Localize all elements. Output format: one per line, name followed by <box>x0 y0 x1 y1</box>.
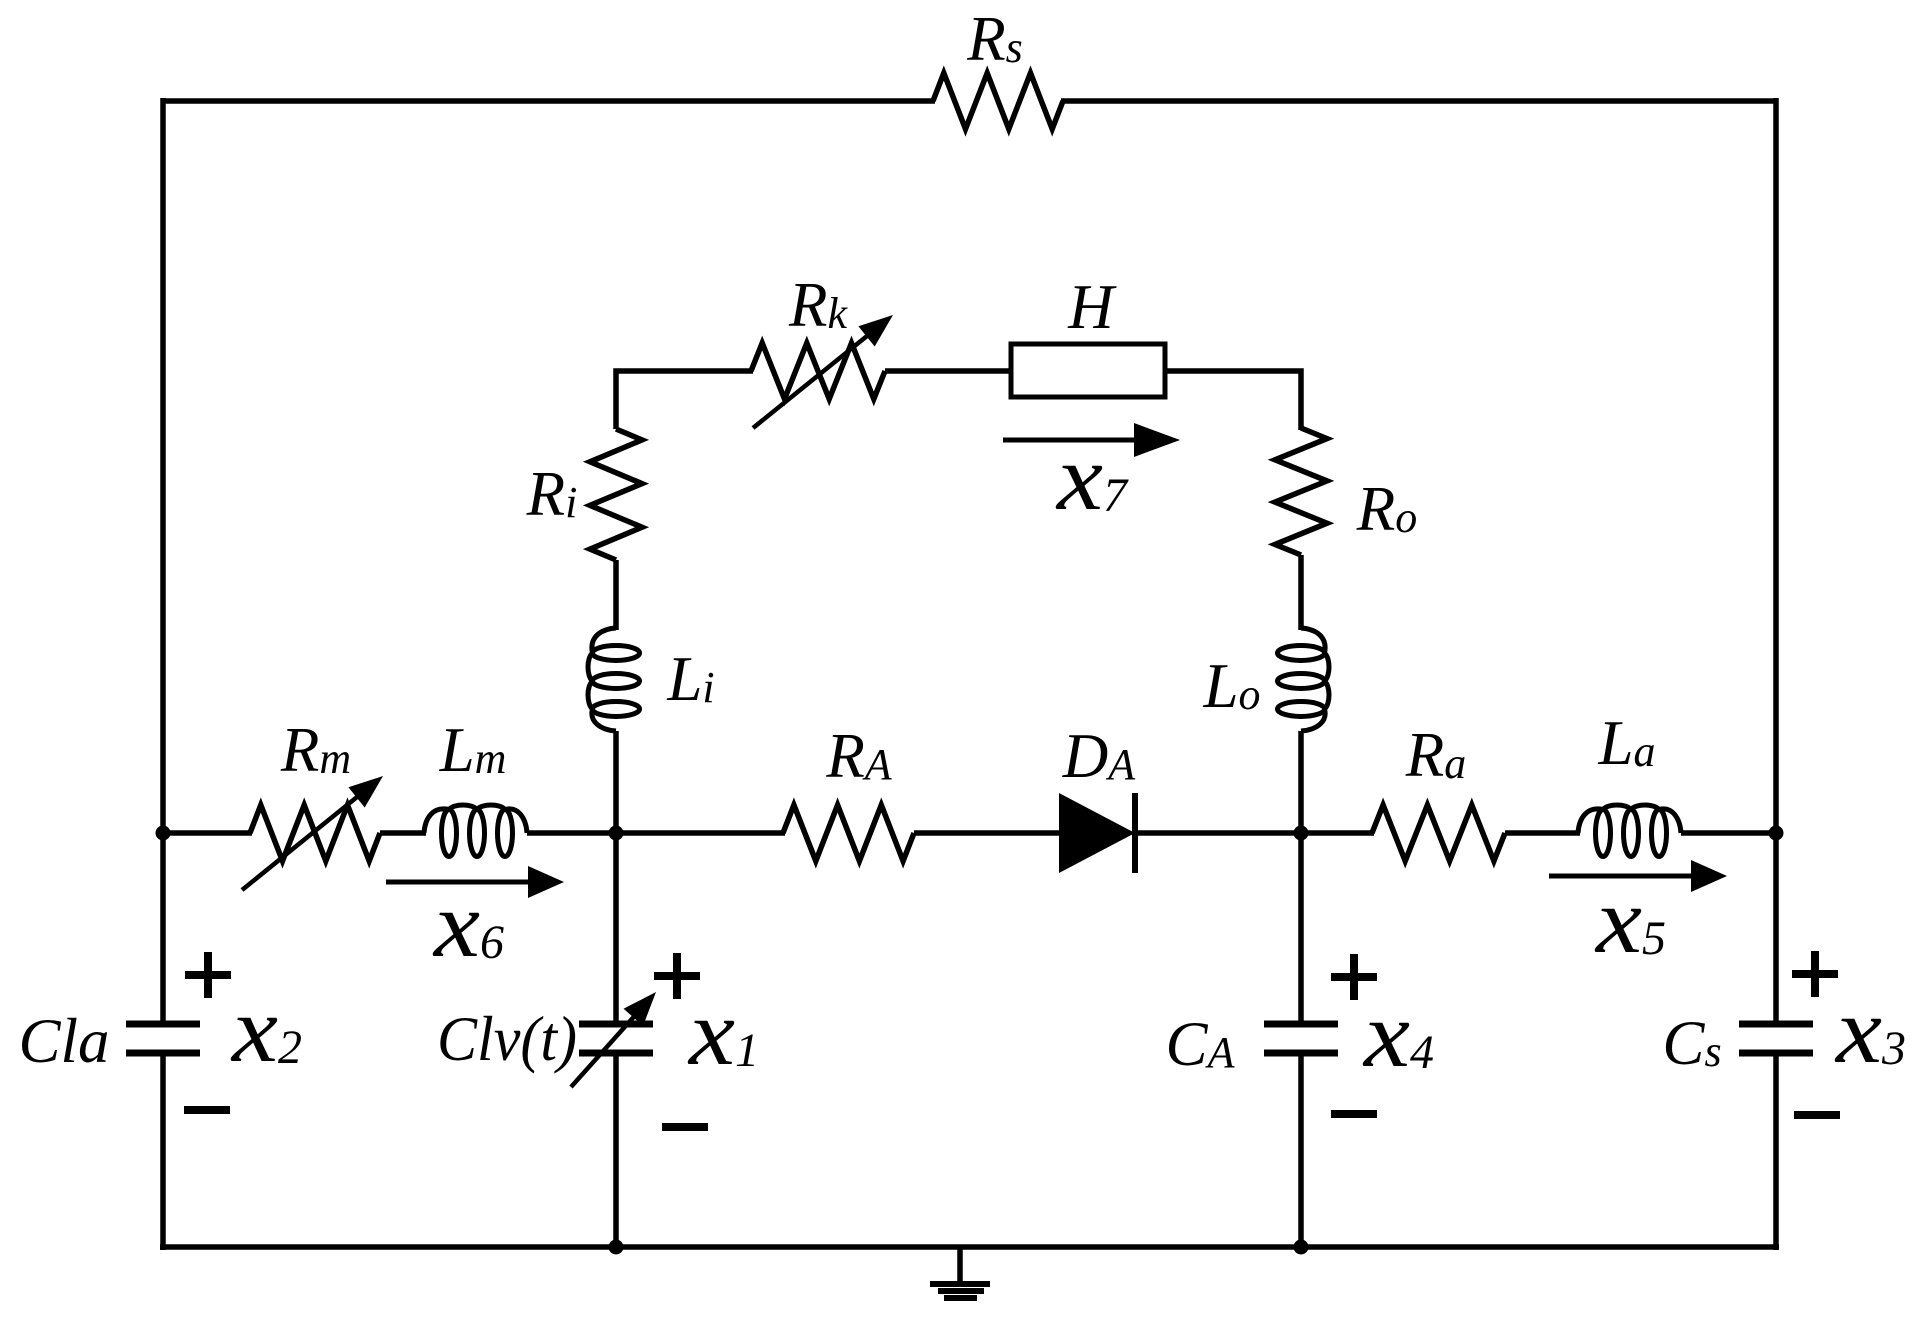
inductor Lo <box>1278 628 1330 731</box>
resistor Rm (variable) <box>242 776 383 890</box>
capacitor CA <box>1264 1024 1338 1053</box>
wire Ro-Lo <box>1298 555 1304 630</box>
current arrow x5 <box>1549 860 1727 892</box>
wire top-left segment <box>163 98 935 104</box>
wire Lo-bus <box>1298 731 1304 836</box>
resistor Rk (variable) <box>751 315 893 428</box>
svg-text:Cla: Cla <box>18 1006 109 1076</box>
wire Li-bus <box>613 731 619 836</box>
wire right upper <box>1773 98 1779 1024</box>
node junction bus-Clv branch <box>609 826 624 841</box>
wire top-right segment <box>1061 98 1776 104</box>
polarity + of CA <box>1331 973 1377 981</box>
inductor La <box>1578 805 1681 857</box>
node junction bottom-Clv <box>609 1240 624 1255</box>
wire inner-loop top-left corner <box>616 371 753 429</box>
wire bus Ra-La <box>1505 830 1580 836</box>
svg-text:Clv(t): Clv(t) <box>437 1004 577 1074</box>
polarity - of CA <box>1331 1110 1377 1118</box>
wire Ri-Li <box>613 560 619 630</box>
wire bus-CA <box>1298 833 1304 1024</box>
wire CA-bottom <box>1298 1053 1304 1247</box>
inductor Li <box>588 628 640 731</box>
resistor Ri <box>590 429 642 560</box>
block H <box>1011 344 1165 397</box>
wire bus Lm-RA <box>527 830 785 836</box>
resistor Ro <box>1275 428 1327 555</box>
svg-text:H: H <box>1067 272 1117 342</box>
wire right lower <box>1773 1053 1779 1250</box>
node junction bottom-CA <box>1294 1240 1309 1255</box>
capacitor Cla <box>126 1024 200 1053</box>
polarity - of Clv <box>662 1123 708 1131</box>
wire bus RA-DA <box>914 830 1062 836</box>
wire bottom <box>160 1244 1779 1250</box>
polarity + of Cs <box>1792 970 1838 978</box>
wire bus-Clv <box>613 833 619 1024</box>
wire left lower <box>160 1053 166 1250</box>
resistor Rs <box>933 73 1063 129</box>
wire H-right corner <box>1165 371 1301 430</box>
node junction bus-CA branch <box>1294 826 1309 841</box>
wire Rk-H <box>885 368 1013 374</box>
wire bus Rm-Lm <box>380 830 426 836</box>
wire Clv-bottom <box>613 1053 619 1247</box>
polarity + of Clv <box>654 972 700 980</box>
capacitor Cs <box>1739 1024 1813 1053</box>
wire bus left <box>163 830 252 836</box>
polarity + of Cla <box>185 971 231 979</box>
wire left upper <box>160 98 166 1024</box>
wire bus DA-Ra <box>1135 830 1374 836</box>
polarity - of Cla <box>184 1106 230 1114</box>
node junction bus-right <box>1769 826 1784 841</box>
capacitor Clv(t) (variable) <box>571 992 656 1087</box>
inductor Lm <box>424 805 527 857</box>
diode DA <box>1059 793 1135 873</box>
current arrow x6 <box>386 866 564 898</box>
node junction bus-left <box>156 826 171 841</box>
resistor Ra <box>1372 805 1505 861</box>
current arrow x7 <box>1003 423 1180 457</box>
resistor RA <box>783 805 914 861</box>
wire bus La-right <box>1681 830 1776 836</box>
polarity - of Cs <box>1794 1111 1840 1119</box>
ground <box>930 1247 990 1298</box>
